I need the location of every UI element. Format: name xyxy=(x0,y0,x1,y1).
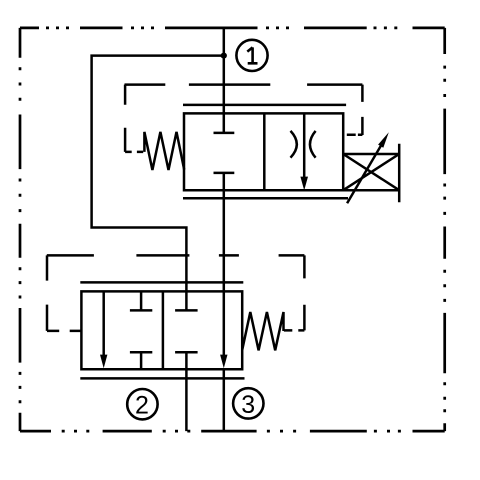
svg-text:2: 2 xyxy=(135,391,149,419)
svg-text:3: 3 xyxy=(241,391,255,419)
